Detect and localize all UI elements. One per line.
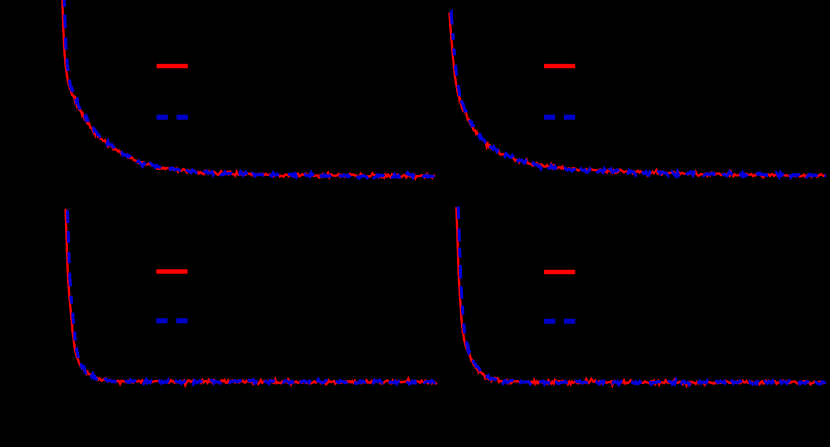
top-left legend: red solid swatch [157,64,188,68]
top-left subplot: blue dashed curve [64,0,435,178]
bottom-right subplot: blue dashed curve [458,207,826,385]
bottom-right subplot: red solid curve [456,207,826,385]
bottom-left legend: red solid swatch [156,269,187,273]
top-right subplot: blue dashed curve [451,12,826,178]
top-right subplot: red solid curve [449,13,826,178]
top-right legend: red solid swatch [544,64,575,68]
top-left subplot: red solid curve [62,0,435,178]
bottom-right legend: blue dashed swatch [544,319,575,324]
bottom-right legend: red solid swatch [544,270,575,274]
bottom-left legend: blue dashed swatch [156,318,187,323]
bottom-left subplot: blue dashed curve [67,210,437,384]
top-right legend: blue dashed swatch [544,115,575,120]
top-left legend: blue dashed swatch [157,115,188,120]
bottom-left subplot: red solid curve [66,209,437,385]
